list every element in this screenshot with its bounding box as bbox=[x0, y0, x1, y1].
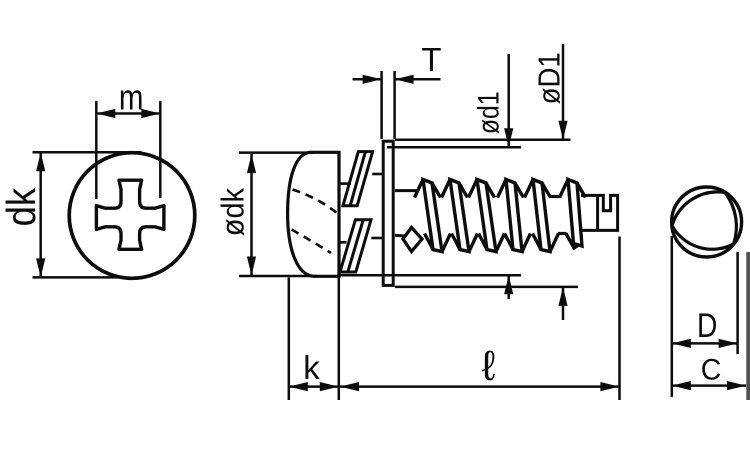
spring washer upper section bbox=[343, 152, 373, 206]
dimension C right edge line bbox=[746, 252, 750, 400]
thread flank bands bbox=[423, 180, 442, 252]
trilobular cross-section bbox=[672, 192, 736, 249]
svg-text:C: C bbox=[701, 354, 722, 387]
svg-text:øD1: øD1 bbox=[532, 52, 567, 104]
svg-text:dk: dk bbox=[0, 187, 45, 226]
svg-text:m: m bbox=[119, 77, 144, 117]
dimension D extension lines bbox=[671, 236, 674, 397]
dimension l extension line bbox=[618, 237, 621, 401]
point end outline circle bbox=[672, 187, 742, 257]
dimension T line with arrows bbox=[353, 78, 382, 81]
pan head (side view) bbox=[288, 152, 339, 276]
dimension dk line with arrows bbox=[39, 152, 42, 277]
svg-text:ødk: ødk bbox=[216, 187, 250, 236]
dimension phi-dk line with arrows bbox=[250, 154, 253, 276]
dimension phi-D1 line with arrows bbox=[562, 44, 565, 140]
dimension k extension lines bbox=[288, 278, 291, 401]
shank lower line bbox=[395, 234, 405, 238]
dimension l line with arrows bbox=[340, 385, 619, 388]
dimension dk extension lines bbox=[33, 151, 142, 154]
hidden recess line (dashed) lower bbox=[292, 230, 332, 254]
svg-text:ød1: ød1 bbox=[471, 91, 505, 134]
thread crest teeth bbox=[403, 228, 422, 252]
dimension D line with arrows bbox=[672, 342, 738, 345]
dimension phi-d1 line with arrows bbox=[507, 54, 510, 147]
dimension m line with arrows bbox=[96, 112, 160, 115]
spring washer coil lines bbox=[338, 182, 352, 185]
dimension phi-D1 extension lines bbox=[395, 138, 571, 141]
svg-text:D: D bbox=[697, 307, 717, 345]
svg-text:ℓ: ℓ bbox=[482, 342, 496, 389]
screw tip end bbox=[581, 195, 618, 230]
shank upper line bbox=[395, 189, 418, 192]
svg-text:k: k bbox=[303, 349, 320, 386]
dimension T extension lines bbox=[380, 71, 383, 139]
dimension m extension lines bbox=[95, 101, 98, 199]
head outline circle (top view) bbox=[69, 153, 195, 279]
spring washer lower section bbox=[340, 220, 371, 272]
dimension phi-d1 extension lines bbox=[387, 146, 521, 149]
dimension phi-dk extension lines bbox=[239, 151, 314, 154]
flat washer bbox=[383, 141, 393, 285]
hidden recess line (dashed) upper bbox=[293, 190, 337, 213]
dimension k line with arrows bbox=[289, 385, 339, 388]
phillips cross recess bbox=[96, 180, 163, 249]
dimension C line with arrows bbox=[672, 384, 746, 387]
svg-text:T: T bbox=[421, 41, 441, 78]
